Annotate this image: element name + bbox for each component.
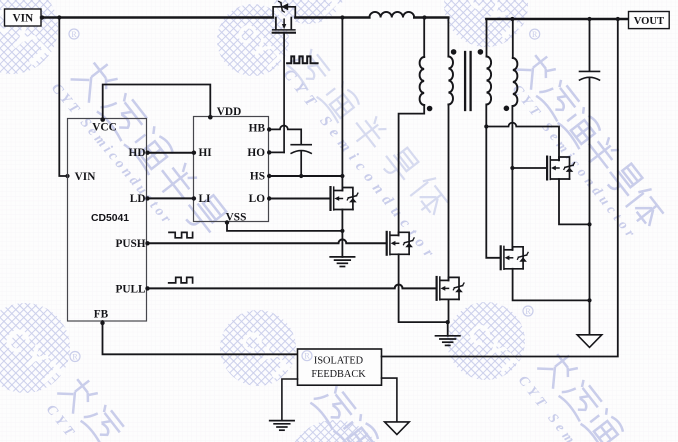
svg-text:HI: HI xyxy=(199,147,213,159)
svg-text:ISOLATED: ISOLATED xyxy=(314,356,364,367)
svg-text:HB: HB xyxy=(249,123,266,135)
svg-text:VDD: VDD xyxy=(217,106,241,118)
svg-text:VIN: VIN xyxy=(75,171,97,183)
svg-text:R: R xyxy=(525,307,531,316)
svg-text:R: R xyxy=(71,30,77,39)
svg-text:PUSH: PUSH xyxy=(115,238,145,250)
svg-text:VIN: VIN xyxy=(12,12,34,24)
svg-text:CD5041: CD5041 xyxy=(91,213,129,224)
svg-text:FB: FB xyxy=(94,309,109,321)
svg-text:HO: HO xyxy=(247,147,265,159)
svg-text:VSS: VSS xyxy=(226,212,247,224)
svg-text:PULL: PULL xyxy=(115,283,146,295)
svg-text:FEEDBACK: FEEDBACK xyxy=(311,369,366,380)
svg-text:HS: HS xyxy=(250,171,265,183)
svg-text:LI: LI xyxy=(199,193,212,205)
svg-text:R: R xyxy=(72,352,78,361)
svg-text:LO: LO xyxy=(249,193,266,205)
svg-text:LD: LD xyxy=(130,193,146,205)
svg-text:VCC: VCC xyxy=(92,122,116,134)
svg-text:VOUT: VOUT xyxy=(634,16,664,27)
svg-text:R: R xyxy=(532,30,538,39)
svg-text:HD: HD xyxy=(129,147,146,159)
svg-text:R: R xyxy=(304,352,310,361)
